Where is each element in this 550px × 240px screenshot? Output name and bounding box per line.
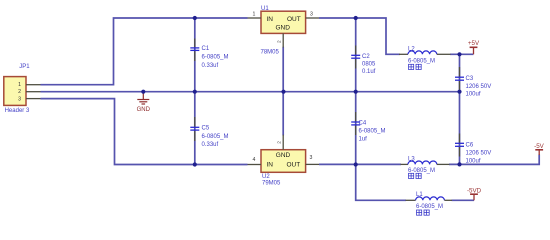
svg-text:0.1uf: 0.1uf — [362, 69, 376, 75]
capacitor C1 — [190, 39, 199, 62]
junction C5 bottom U2 IN wire — [193, 162, 197, 166]
svg-text:6-0805_M: 6-0805_M — [202, 55, 229, 61]
L1 labels — [416, 192, 443, 210]
junction C1 top rail — [193, 16, 197, 20]
junction C1 C5 bus — [193, 90, 197, 94]
wire L2 out to +5V tap — [450, 53, 473, 55]
capacitor C4 — [351, 112, 360, 135]
L2 labels — [408, 47, 435, 65]
svg-text:C1: C1 — [202, 46, 210, 52]
svg-text:L1: L1 — [416, 192, 423, 198]
C3 labels — [466, 76, 492, 98]
svg-text:1206 50V: 1206 50V — [466, 84, 492, 90]
connector JP1 body — [4, 77, 26, 106]
C5 labels — [202, 125, 229, 148]
svg-text:OUT: OUT — [287, 161, 301, 168]
svg-text:0.33uf: 0.33uf — [202, 63, 219, 69]
svg-text:IN: IN — [267, 161, 274, 168]
regulator U2 body — [261, 150, 306, 173]
svg-text:Header 3: Header 3 — [5, 108, 30, 114]
svg-text:6-0805_M: 6-0805_M — [202, 134, 229, 140]
svg-text:C3: C3 — [466, 76, 474, 82]
svg-text:1: 1 — [18, 82, 21, 88]
svg-text:3: 3 — [18, 96, 21, 102]
JP1 pin 3 lead — [26, 98, 41, 100]
wire L1 out to -5VD tap — [452, 199, 474, 201]
svg-text:GND: GND — [275, 25, 290, 32]
svg-text:OUT: OUT — [287, 16, 301, 23]
capacitor C3 — [455, 67, 464, 90]
U2 pin 2 lead — [277, 135, 284, 150]
junction C2 top rail — [354, 16, 358, 20]
svg-text:GND: GND — [137, 107, 151, 113]
svg-text:6-0805_M: 6-0805_M — [416, 204, 443, 210]
svg-text:100uf: 100uf — [466, 92, 481, 98]
svg-text:0805: 0805 — [362, 62, 376, 68]
svg-text:1: 1 — [253, 11, 256, 17]
junction L3 out C6 bottom — [457, 162, 461, 166]
capacitor C6 — [455, 134, 464, 157]
svg-text:2: 2 — [277, 40, 283, 43]
capacitor C2 — [351, 46, 360, 69]
svg-text:6-0805_M: 6-0805_M — [408, 168, 435, 174]
wire C4 vertical column — [355, 92, 357, 165]
wire C3 C6 vertical column — [459, 54, 461, 164]
svg-text:+5V: +5V — [468, 40, 480, 47]
svg-text:100uf: 100uf — [466, 159, 481, 165]
inductor L1 — [406, 197, 453, 200]
svg-text:3: 3 — [310, 155, 313, 161]
U2 pin 4 lead — [248, 157, 262, 165]
svg-text:3: 3 — [310, 11, 313, 17]
U1 pin 1 lead — [248, 11, 262, 18]
wire from JP1 pin3 down to U2 IN — [41, 99, 248, 165]
wire branch down from L3 row to L1 row — [356, 165, 406, 201]
junction bus end C3 C6 — [457, 90, 461, 94]
svg-text:L3: L3 — [408, 157, 415, 163]
U1 pin 2 lead — [277, 33, 284, 47]
svg-text:78M05: 78M05 — [261, 49, 280, 55]
L3 labels — [408, 157, 435, 174]
L2 label ferrite bead glyphs — [409, 64, 422, 69]
C4 labels — [359, 121, 386, 143]
wire C1 vertical column — [194, 18, 196, 92]
junction GND bus at ground — [141, 90, 145, 94]
svg-text:1uf: 1uf — [359, 137, 368, 143]
C6 labels — [466, 143, 492, 165]
C1 labels — [202, 46, 229, 69]
U2 pin 3 lead — [306, 155, 319, 165]
svg-text:C5: C5 — [202, 125, 210, 131]
wire GND bus from JP1 pin2 to C3/C6 column — [41, 91, 460, 93]
wire U1 OUT rail to corner down to L2 — [319, 18, 400, 54]
ground symbol GND — [137, 92, 151, 113]
svg-text:6-0805_M: 6-0805_M — [359, 129, 386, 135]
inductor L2 — [399, 51, 451, 54]
wire C5 vertical column — [194, 92, 196, 165]
svg-text:6-0805_M: 6-0805_M — [408, 58, 435, 64]
U1 pin 3 lead — [306, 11, 319, 18]
svg-text:L2: L2 — [408, 47, 415, 53]
capacitor C5 — [190, 117, 199, 141]
svg-text:2: 2 — [18, 89, 21, 95]
JP1 pin 1 lead — [26, 84, 41, 86]
svg-text:2: 2 — [277, 141, 283, 144]
svg-text:79M05: 79M05 — [262, 180, 281, 186]
power port -5VD — [467, 188, 482, 201]
wire from JP1 pin1 up to top rail into U1 IN — [41, 18, 248, 85]
junction C4 bottom L1 branch — [354, 162, 358, 166]
svg-text:-5VD: -5VD — [467, 188, 482, 195]
power port +5V — [468, 40, 480, 54]
svg-text:C2: C2 — [362, 54, 370, 60]
svg-text:1206 50V: 1206 50V — [466, 151, 492, 157]
svg-text:C4: C4 — [359, 121, 367, 127]
svg-text:C6: C6 — [466, 143, 474, 149]
svg-text:JP1: JP1 — [19, 64, 30, 70]
regulator U1 body — [261, 11, 306, 33]
svg-text:GND: GND — [276, 152, 291, 159]
power port -5V — [534, 143, 545, 155]
svg-text:U2: U2 — [262, 174, 270, 180]
L1 label ferrite bead glyphs — [417, 210, 430, 215]
junction C2 C4 bus — [354, 90, 358, 94]
C2 labels — [362, 54, 376, 75]
svg-text:4: 4 — [253, 157, 256, 163]
wire C2 vertical column — [355, 18, 357, 92]
svg-text:-5V: -5V — [534, 143, 545, 150]
wire U1 pin2 to GND bus to U2 pin2 — [282, 47, 284, 136]
wire U2 OUT to L3 — [319, 163, 401, 165]
wire L3 out to -5V tap — [449, 155, 539, 165]
junction U1 U2 GND pins bus — [281, 90, 285, 94]
inductor L3 — [401, 161, 450, 164]
L3 label ferrite bead glyphs — [409, 173, 422, 178]
svg-text:IN: IN — [267, 16, 274, 23]
JP1 pin 2 lead — [26, 91, 41, 93]
svg-text:0.33uf: 0.33uf — [202, 142, 219, 148]
junction L2 out C3 top — [457, 52, 461, 56]
svg-text:U1: U1 — [261, 6, 269, 12]
